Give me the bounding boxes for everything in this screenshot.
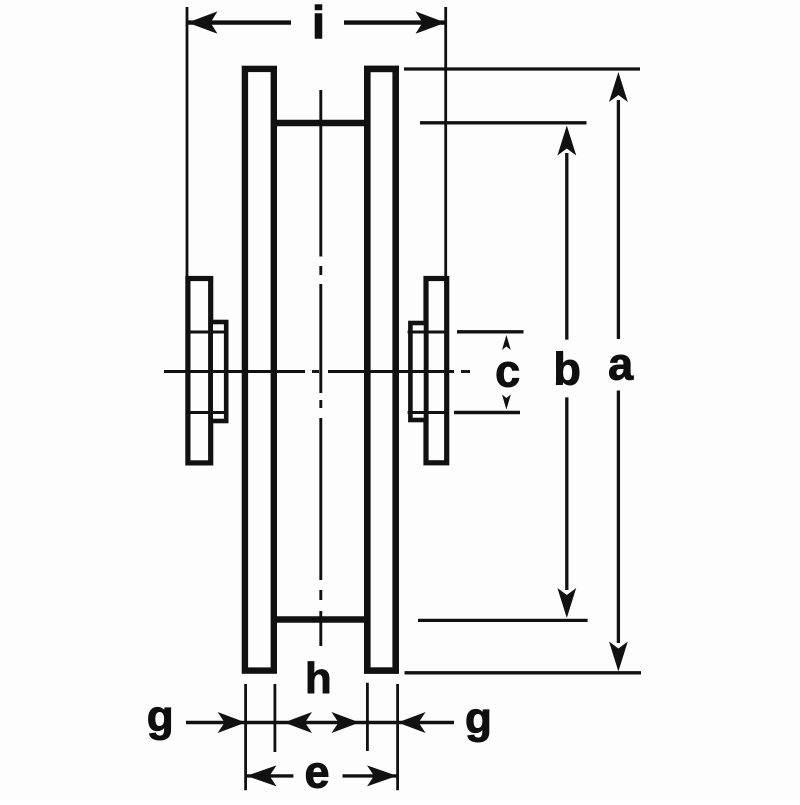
dimension i extension line right <box>444 7 447 276</box>
svg-text:g: g <box>147 692 174 741</box>
right bore line top <box>408 331 448 334</box>
dimension a extension line top <box>404 67 640 70</box>
dimension b extension line bottom <box>418 619 588 622</box>
label g left <box>147 692 174 741</box>
dimension c arrow down <box>502 395 511 410</box>
label h <box>305 654 332 703</box>
svg-text:e: e <box>304 747 329 798</box>
dimension g arrow right <box>398 712 426 733</box>
dimension e line <box>247 774 397 777</box>
dimension i arrow left <box>188 11 218 33</box>
drum top line <box>274 120 367 126</box>
dimension h arrow right <box>332 712 360 733</box>
dimension g extension line outer left <box>244 684 247 790</box>
dimension c arrow up <box>502 335 511 350</box>
dimension g arrow left <box>218 712 246 733</box>
dimension b arrow up <box>557 126 576 156</box>
dimension b line <box>565 153 568 590</box>
label g right <box>465 694 492 743</box>
dimension i arrow right <box>416 11 446 33</box>
dimension g extension line outer right <box>396 684 399 790</box>
label e <box>304 747 329 798</box>
svg-text:a: a <box>608 339 634 390</box>
dimension g line <box>186 721 454 724</box>
horizontal centerline <box>164 370 470 373</box>
dimension i line <box>188 20 446 24</box>
label i <box>312 0 325 48</box>
dimension g extension line inner left <box>273 684 276 752</box>
svg-text:c: c <box>495 345 520 396</box>
left bore line top <box>186 331 228 334</box>
dimension h arrow left <box>284 712 312 733</box>
left bushing <box>211 322 227 421</box>
svg-text:h: h <box>305 654 332 703</box>
right bushing <box>410 323 426 420</box>
dimension b extension line top <box>420 121 587 124</box>
svg-text:i: i <box>312 0 325 48</box>
left bore line bottom <box>186 411 228 414</box>
left flange <box>245 69 274 671</box>
dimension g extension line inner right <box>366 683 369 751</box>
dimension b arrow down <box>557 588 576 618</box>
drum bottom line <box>274 616 367 622</box>
svg-text:g: g <box>465 694 492 743</box>
dimension a arrow up <box>609 72 628 102</box>
dimension a extension line bottom <box>405 671 642 674</box>
label b <box>553 343 581 394</box>
dimension e arrow left <box>247 765 277 786</box>
right flange <box>367 69 395 671</box>
dimension a arrow down <box>609 642 628 672</box>
left hub <box>188 279 211 463</box>
right bore line bottom <box>408 411 448 414</box>
dimension a line <box>617 100 620 643</box>
svg-text:b: b <box>553 343 581 394</box>
dimension e arrow right <box>367 765 397 786</box>
right hub <box>426 279 447 463</box>
dimension c extension line top <box>457 330 524 333</box>
label a <box>608 339 634 390</box>
vertical centerline <box>319 90 322 646</box>
dimension i extension line left <box>186 7 189 276</box>
dimension c extension line bottom <box>454 411 520 414</box>
label c <box>495 345 520 396</box>
